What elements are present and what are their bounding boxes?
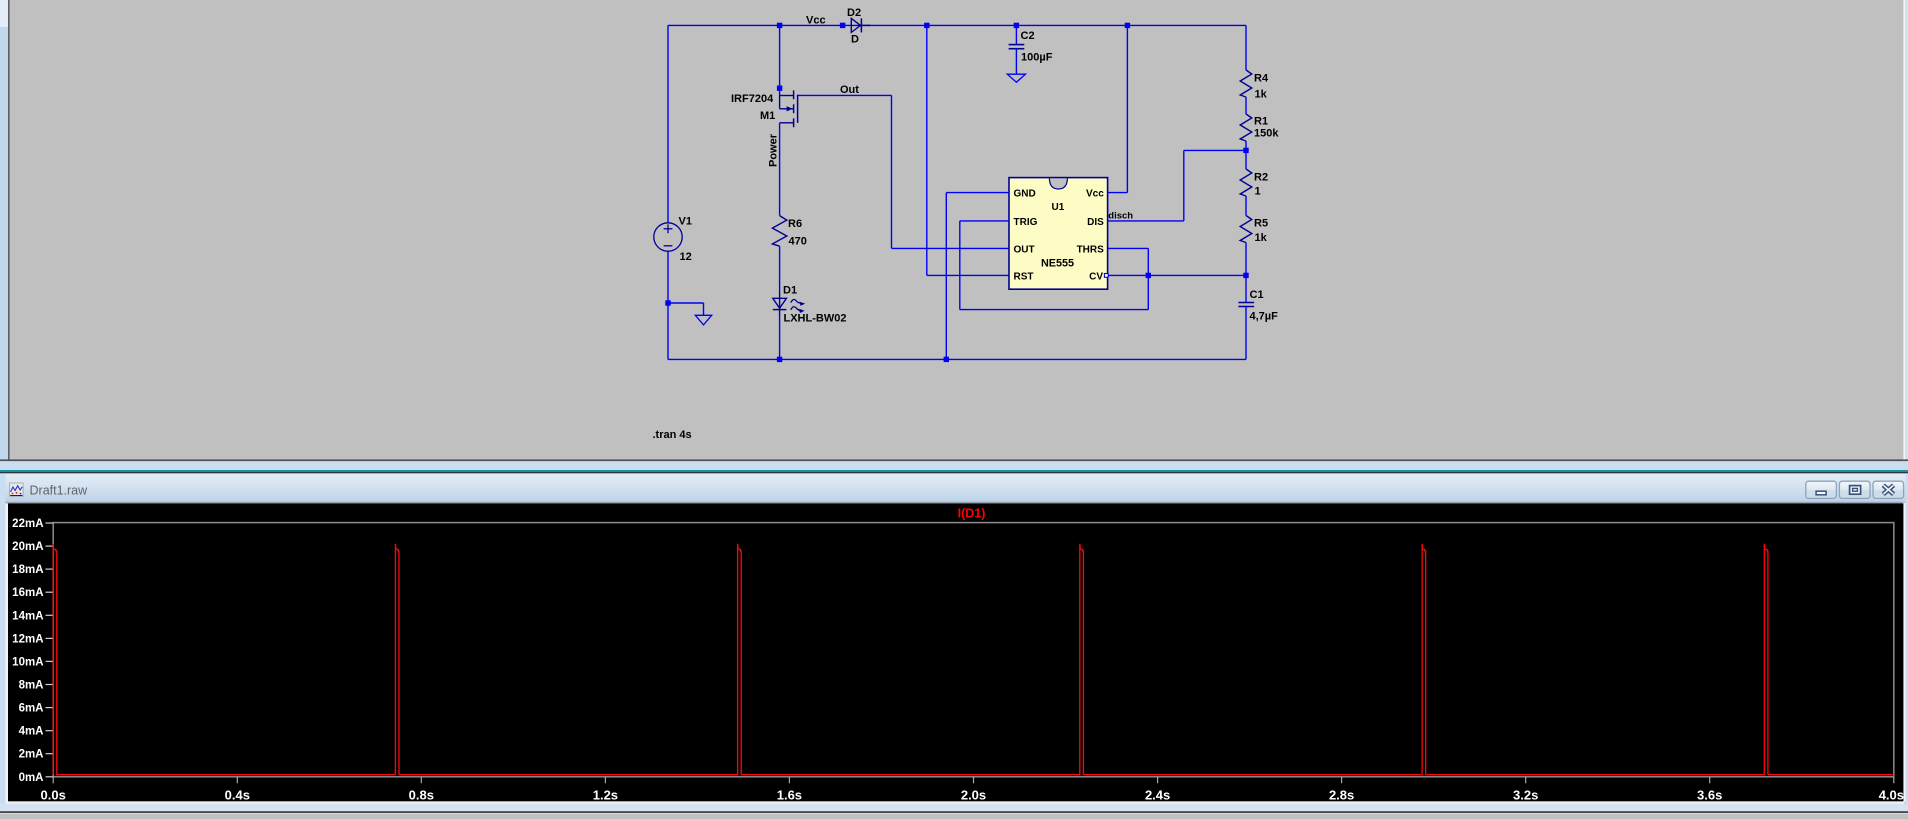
diode D2	[851, 18, 870, 32]
svg-text:1k: 1k	[1255, 232, 1268, 244]
svg-text:1.2s: 1.2s	[593, 788, 618, 803]
svg-text:Draft1.raw: Draft1.raw	[30, 484, 89, 498]
wire GND pin horizontal	[946, 192, 1009, 194]
svg-text:6mA: 6mA	[19, 703, 44, 715]
svg-text:2.4s: 2.4s	[1145, 788, 1170, 803]
svg-text:NE555: NE555	[1041, 258, 1074, 270]
wire DIS pin horizontal	[1108, 220, 1184, 222]
svg-text:14mA: 14mA	[12, 610, 43, 622]
wire disch to R1/R2 junction	[1184, 149, 1246, 151]
resistor R1	[1240, 114, 1252, 141]
wire C2 stub lower	[1015, 49, 1017, 74]
wire C2 stub upper	[1015, 25, 1017, 44]
svg-text:150k: 150k	[1254, 127, 1279, 139]
schematic window canvas	[0, 0, 1908, 462]
svg-text:2.0s: 2.0s	[961, 788, 986, 803]
svg-text:1.6s: 1.6s	[777, 788, 802, 803]
svg-text:C2: C2	[1021, 30, 1035, 42]
svg-text:8mA: 8mA	[19, 680, 44, 692]
LED D1	[773, 291, 805, 316]
svg-text:22mA: 22mA	[12, 518, 43, 530]
resistor R2	[1240, 169, 1252, 196]
svg-text:100µF: 100µF	[1021, 51, 1053, 63]
wire U1 Vcc branch vertical	[1126, 25, 1128, 192]
node R5/C1/CV junction	[1243, 273, 1248, 278]
wire R5 to CV junction	[1245, 243, 1247, 303]
node V1 ground junction	[665, 300, 670, 305]
svg-text:R5: R5	[1254, 217, 1268, 229]
wire Out to OUT pin	[892, 247, 1010, 249]
wire TRIG-THRS link	[960, 309, 1149, 311]
svg-text:20mA: 20mA	[12, 541, 43, 553]
wire TRIG vertical	[959, 221, 961, 310]
pin CV square	[1104, 274, 1108, 278]
wire THRS pin horizontal	[1108, 247, 1149, 249]
plot frame	[53, 523, 1894, 777]
svg-text:Out: Out	[840, 84, 859, 96]
node Vcc label anchor	[840, 23, 845, 28]
svg-text:D2: D2	[847, 7, 861, 19]
trace I(D1)	[53, 544, 1894, 775]
svg-text:R6: R6	[788, 218, 802, 230]
svg-text:U1: U1	[1052, 202, 1065, 213]
node GND bottom junction	[944, 357, 949, 362]
node C2 rail junction	[1014, 23, 1019, 28]
wire D1 to bottom rail	[779, 316, 781, 359]
svg-text:1: 1	[1255, 185, 1261, 197]
svg-text:IRF7204: IRF7204	[731, 93, 774, 105]
transistor M1 (PMOS IRF7204)	[780, 90, 798, 127]
svg-text:CV: CV	[1089, 271, 1103, 282]
y axis labels and ticks	[12, 518, 53, 784]
svg-text:4mA: 4mA	[19, 726, 44, 738]
svg-text:TRIG: TRIG	[1014, 217, 1038, 228]
x axis labels and ticks	[41, 777, 1904, 803]
node CV THRS crossing junction	[1146, 273, 1151, 278]
svg-text:470: 470	[789, 235, 807, 247]
titlebar icon	[10, 483, 24, 496]
wire C1 to bottom rail	[1245, 307, 1247, 360]
svg-text:.tran 4s: .tran 4s	[653, 429, 692, 441]
wire ground stub	[668, 302, 704, 304]
minimize button	[1806, 481, 1837, 498]
wire RST pin horizontal	[927, 274, 1009, 276]
svg-text:R2: R2	[1254, 172, 1268, 184]
node M1 top rail junction	[777, 23, 782, 28]
wire U1 Vcc pin horizontal	[1108, 192, 1128, 194]
svg-text:12: 12	[680, 251, 692, 263]
voltage source V1	[654, 223, 682, 251]
waveform window frame	[0, 459, 1908, 461]
wire Out from gate	[798, 94, 892, 96]
svg-text:Power: Power	[768, 133, 780, 167]
wire R2-R5	[1245, 196, 1247, 216]
wire M1 source from rail	[779, 25, 781, 95]
wire M1 drain down	[779, 123, 781, 216]
svg-text:Vcc: Vcc	[1086, 189, 1104, 200]
titlebar lower edge	[6, 502, 1903, 504]
svg-text:4.0s: 4.0s	[1879, 788, 1904, 803]
resistor R4	[1240, 70, 1252, 97]
svg-text:D1: D1	[783, 285, 797, 297]
svg-text:THRS: THRS	[1077, 245, 1105, 256]
node U1 Vcc rail junction	[1125, 23, 1130, 28]
ground symbol C2	[1007, 74, 1025, 82]
svg-text:3.6s: 3.6s	[1697, 788, 1722, 803]
ground symbol left	[695, 315, 711, 325]
restore button	[1839, 481, 1870, 498]
svg-text:0.8s: 0.8s	[409, 788, 434, 803]
svg-text:18mA: 18mA	[12, 564, 43, 576]
svg-text:12mA: 12mA	[12, 633, 43, 645]
svg-text:0.4s: 0.4s	[225, 788, 250, 803]
wire right rail top	[1245, 25, 1247, 70]
svg-text:I(D1): I(D1)	[958, 507, 986, 521]
svg-text:DIS: DIS	[1087, 217, 1104, 228]
svg-text:R4: R4	[1254, 73, 1269, 85]
svg-text:M1: M1	[760, 110, 775, 122]
plot pane black background	[8, 503, 1903, 801]
wire left rail upper	[667, 25, 669, 223]
capacitor C2	[1009, 45, 1025, 49]
svg-text:GND: GND	[1014, 189, 1036, 200]
svg-text:10mA: 10mA	[12, 656, 43, 668]
wire R4-R1	[1245, 97, 1247, 114]
svg-text:3.2s: 3.2s	[1513, 788, 1538, 803]
wire top Vcc rail	[668, 24, 1246, 26]
node D1 bottom junction	[777, 357, 782, 362]
wire left rail lower	[667, 251, 669, 359]
svg-text:1k: 1k	[1255, 88, 1268, 100]
resistor R5	[1240, 216, 1252, 243]
svg-text:OUT: OUT	[1014, 245, 1035, 256]
svg-text:0.0s: 0.0s	[41, 788, 66, 803]
node R1/R2/disch junction	[1243, 148, 1248, 153]
svg-text:0mA: 0mA	[19, 772, 44, 784]
svg-text:R1: R1	[1254, 116, 1268, 128]
wire CV horizontal	[1108, 274, 1246, 276]
svg-text:16mA: 16mA	[12, 587, 43, 599]
svg-text:LXHL-BW02: LXHL-BW02	[784, 313, 847, 325]
svg-text:4,7µF: 4,7µF	[1250, 310, 1279, 322]
op-amp U1 (NE555 timer body)	[1009, 178, 1108, 290]
wire TRIG pin horizontal	[960, 220, 1009, 222]
resistor R6	[772, 216, 786, 247]
node M1 source	[777, 86, 782, 91]
wire bottom rail	[668, 358, 1246, 360]
close button	[1873, 481, 1904, 498]
wire THRS vertical	[1147, 248, 1149, 309]
svg-text:disch: disch	[1108, 210, 1133, 221]
wire R1 to junction	[1245, 141, 1247, 169]
wire Out vertical	[891, 95, 893, 248]
svg-text:C1: C1	[1250, 289, 1264, 301]
svg-text:2mA: 2mA	[19, 749, 44, 761]
wire R6 to D1	[779, 246, 781, 291]
wire disch vertical	[1183, 150, 1185, 221]
wire RST branch vertical	[926, 25, 928, 275]
svg-text:V1: V1	[679, 216, 692, 228]
capacitor C1	[1238, 303, 1254, 307]
svg-text:2.8s: 2.8s	[1329, 788, 1354, 803]
svg-text:D: D	[851, 34, 859, 46]
node RST rail junction	[924, 23, 929, 28]
wire GND branch vertical	[945, 193, 947, 360]
svg-text:RST: RST	[1014, 271, 1034, 282]
svg-text:Vcc: Vcc	[806, 15, 826, 27]
